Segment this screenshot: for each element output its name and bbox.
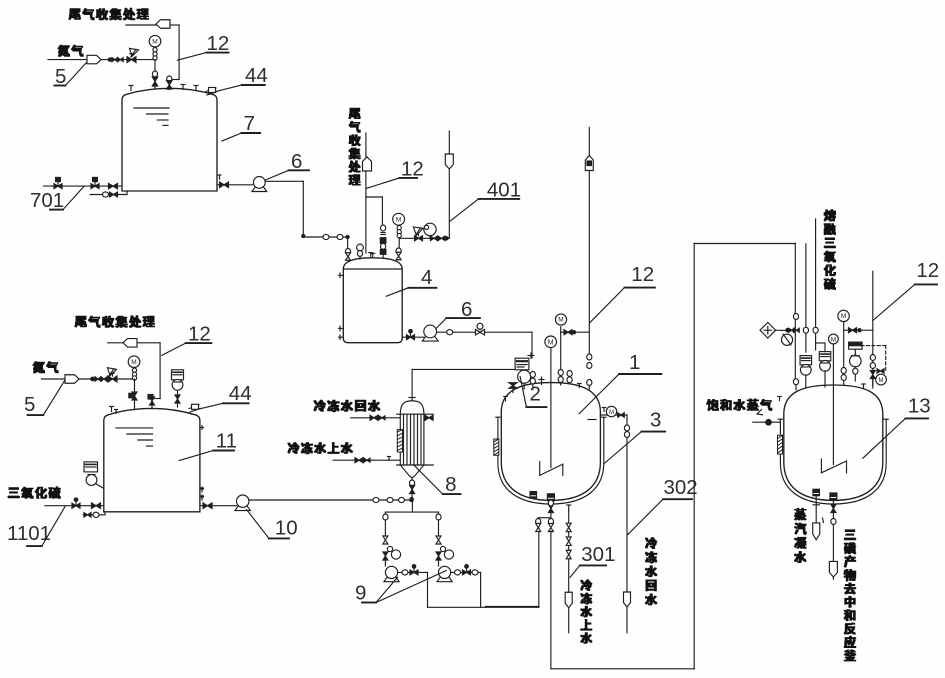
svg-text:12: 12 (916, 259, 939, 282)
liquid level mark tank7 (134, 108, 169, 125)
leader label 5 (tank11) (24, 381, 65, 416)
ball valve steam line (766, 419, 772, 425)
liquid level dash reactor1 (588, 419, 596, 421)
reactor 1 jacket (496, 417, 606, 504)
pipe: SO3 feed lines into vessel13 (806, 219, 816, 352)
side level transmitter tank11 (84, 462, 104, 489)
svg-text:M: M (879, 378, 884, 384)
pipe: tank7 drain (90, 191, 127, 195)
pipe: transfer line reactor1 to vessel13 (551, 244, 795, 669)
valves pump suction right (436, 514, 454, 566)
pipe: 1101 feed to tank11 (45, 505, 104, 507)
valves pumps discharge (402, 565, 478, 575)
svg-text:M: M (131, 359, 136, 366)
valves cw return (370, 415, 433, 420)
valves 1101 line (72, 498, 101, 509)
leader label 11 (179, 430, 237, 461)
bottom nozzles reactor1 (530, 492, 554, 501)
svg-text:44: 44 (229, 382, 252, 405)
label: chilled water supply vertical (301) (581, 580, 592, 643)
flow arrow vessel4 vent (points up) (363, 157, 372, 171)
pipe: vessel4 pump discharge to reactor 1 (437, 332, 532, 358)
pipe: product outlet vessel13 (832, 500, 834, 561)
flow arrow 302 (points down) (624, 592, 631, 607)
pressure gauge vessel13 (838, 310, 873, 385)
svg-text:M: M (396, 216, 401, 223)
svg-text:M: M (841, 313, 846, 320)
valves below gauge reactor1 (558, 330, 576, 385)
leader label 2 (520, 377, 546, 408)
nozzle ticks vessel4 (339, 254, 375, 340)
svg-text:M: M (609, 410, 614, 416)
label: chilled water supply text (HX) (288, 443, 352, 454)
svg-text:5: 5 (24, 393, 35, 416)
valves tank7 drain (103, 192, 118, 197)
leader label 401 (450, 179, 521, 222)
check valves nitrogen tank11 (91, 377, 107, 382)
valve stack on vessel4 vent branch (380, 225, 386, 257)
leader label 12 (tank7 vent) (177, 32, 229, 60)
pressure gauge reactor1 (555, 314, 566, 332)
flow arrow: nitrogen (points right) (87, 55, 101, 64)
pressure gauge tank7 (149, 35, 161, 60)
level switch box vessel13 (849, 342, 863, 381)
pipe: chilled water return to HX (351, 417, 434, 419)
svg-text:3: 3 (650, 409, 661, 432)
svg-text:302: 302 (664, 476, 698, 499)
valves cw supply (355, 458, 370, 463)
FIC transmitter circle (518, 370, 531, 389)
valve on tank7 vent nozzle (167, 76, 173, 90)
tank 11 body (104, 408, 200, 511)
nozzle ticks reactor1 dome (539, 371, 581, 388)
leader label 5 (tank7) (54, 62, 87, 88)
svg-text:M: M (831, 337, 836, 344)
steam trap vessel13 (813, 518, 824, 540)
label: steam condensate vertical text (795, 508, 807, 562)
valves on 301 line (566, 523, 571, 559)
pipe: HX bottom to junction (410, 478, 413, 501)
leader label 10 (247, 510, 298, 540)
svg-text:1: 1 (629, 351, 640, 374)
label: trisulfonated product to neutralization reactor vertical text (844, 530, 856, 661)
svg-text:9: 9 (355, 582, 366, 605)
relief valve with funnel tank7 (127, 48, 139, 62)
leader label 302 (628, 476, 698, 534)
label: chilled water return vertical (302) (646, 538, 657, 605)
label: sulfur trioxide text (8, 487, 60, 498)
leader label 6 (tank7 pump) (265, 150, 309, 180)
pressure gauge vessel4 (393, 213, 405, 259)
pipe: reactor1 side outlet to 302 drop (600, 408, 627, 593)
pipe: gauge tee to riser-12 reactor1 (561, 332, 590, 372)
nozzle 44 fitting tank7 (206, 88, 217, 96)
nozzle ticks tank11 dome (110, 407, 118, 414)
leader label 7 (tank) (222, 112, 260, 141)
leader label 1101 (7, 507, 65, 547)
pump 6 (vessel 4 pump) (422, 335, 438, 341)
gauge on side line reactor1 (606, 406, 624, 417)
pipe: 401 riser (448, 131, 450, 238)
valve stack on riser-12 bottom (587, 354, 592, 389)
agitator motor reactor1 (545, 336, 557, 348)
svg-text:M: M (548, 339, 554, 346)
leader label 12 (vessel13) (873, 259, 939, 321)
level transmitter on tank11 dome (172, 370, 184, 407)
nozzle ticks tank7 dome (129, 85, 198, 91)
heat exchanger 8 shell (397, 401, 434, 478)
leader label 44 (tank11) (200, 382, 252, 409)
valve reactor1 bottom (548, 505, 553, 513)
flow arrow: vent (points left) (156, 20, 170, 29)
flow arrow product (points down) (829, 561, 837, 577)
leader label 12 (tank11) (162, 323, 212, 356)
flow arrow 401 (points down) (445, 154, 453, 169)
leader label 3 (604, 409, 665, 464)
pipe: pumps suction manifold (385, 499, 438, 536)
pipe: vessel13 vent riser 12 (872, 271, 874, 388)
valves on bottom branches (536, 519, 554, 532)
svg-text:12: 12 (207, 32, 230, 55)
valve: nitrogen drop to tank7 dome (152, 60, 158, 89)
valves on line to vessel 4 (323, 234, 343, 239)
svg-text:M: M (558, 317, 563, 324)
hatch nameplate HX8 (397, 430, 402, 452)
label: tail-gas collection text (tank 11) (75, 316, 154, 327)
svg-text:7: 7 (244, 112, 255, 135)
valves on SO3 feed lines (803, 327, 818, 333)
leader label 9 (two pumps) (355, 571, 446, 605)
pipe: 301 chilled water from reactor bottom (567, 505, 571, 592)
tubes of HX8 (404, 414, 422, 465)
valves on relief header (415, 233, 449, 241)
svg-text:M: M (152, 38, 157, 45)
hatch nameplate reactor1 jacket (494, 439, 499, 455)
valve tank11 vent nozzle (148, 395, 155, 410)
leader label 12 (reactor1) (590, 263, 655, 323)
reactor 1 body (501, 383, 600, 501)
pipe: vent line tank11 (108, 343, 160, 399)
pipe: steam condensate line (813, 496, 819, 523)
label: saturated steam text (707, 399, 772, 410)
pipe: steam inlet to vessel13 jacket (753, 410, 781, 423)
valves on vessel13 feed drop (778, 314, 800, 401)
nozzle 44 fitting tank11 (189, 404, 200, 412)
label: molten sulfur trioxide vertical text (824, 210, 835, 290)
leader label 6 (vessel4 pump) (436, 298, 480, 329)
feed transmitters on vessel13 dome (800, 343, 831, 388)
svg-text:12: 12 (631, 263, 654, 286)
pipe: pump10 discharge header (249, 499, 412, 501)
rupture disc diamond vessel13 (760, 322, 795, 345)
label: nitrogen text (tank 7) (58, 45, 83, 56)
svg-text:44: 44 (245, 64, 268, 87)
valves on discharge line (447, 323, 485, 335)
relief funnel tank11 (108, 368, 118, 382)
pipe: 701 feed line (44, 185, 123, 187)
leader label 1 (579, 351, 661, 414)
pipe: vessel4 relief header to 401 (399, 237, 449, 239)
label: tail-gas collection text (tank 7) (69, 8, 148, 19)
agitator reactor 1 (540, 348, 563, 476)
flow arrow reactor1 vent (points up) (585, 156, 593, 171)
flow arrow tank11 vent (points left) (123, 339, 137, 348)
valve: nitrogen drop to tank11 dome (129, 379, 137, 410)
label: tail-gas collection vertical text (vessel 4) (349, 108, 360, 185)
pipe: chilled water supply to HX (333, 457, 400, 461)
svg-text:4: 4 (421, 266, 432, 289)
valves pump suction left (383, 514, 401, 566)
tank 7 body (122, 88, 217, 191)
pipe: vent riser tank7 (169, 25, 179, 80)
bottom nozzles vessel13 (813, 489, 837, 500)
pipe: vent line tank7 to treatment (126, 24, 156, 26)
valves on vessel13 riser (862, 355, 876, 389)
pipe: nitrogen inlet tank7 (48, 59, 155, 61)
pipe: HX top to reactor feed line (409, 369, 515, 400)
pipe: reactor1 bottom outlet tee (538, 500, 551, 527)
svg-text:12: 12 (188, 323, 211, 346)
valve vessel4 outlet (407, 335, 415, 340)
agitator vessel13 (821, 344, 846, 473)
vessel 13 jacket (778, 419, 888, 504)
valve tank7 outlet (220, 182, 229, 188)
relief funnel on header (413, 227, 423, 236)
label: chilled water return text (HX) (314, 400, 380, 411)
leader label 44 (tank7) (217, 64, 268, 91)
valves tank11 drain (84, 512, 99, 517)
hatch nameplate vessel13 jacket (778, 435, 783, 454)
check valves nitrogen line tank7 (108, 58, 123, 62)
valves on 701 line (54, 177, 118, 188)
label: nitrogen text (tank11) (33, 362, 58, 373)
pump 9 right (437, 576, 452, 582)
flow arrow 301 (points down) (565, 592, 572, 608)
pipe: tank7 outlet to pump 6 (217, 175, 253, 185)
svg-text:11: 11 (216, 430, 237, 453)
valve tank11 outlet (203, 503, 212, 509)
flow arrow nitrogen tank11 (points right) (65, 375, 79, 384)
valves on pump10 discharge (373, 497, 413, 502)
leader label 13 (863, 395, 931, 459)
valve stack right of FIC (530, 372, 535, 390)
nozzle ticks tank11 right side (200, 426, 204, 500)
valves on product outlet (831, 505, 836, 525)
valves on vessel4 dome left (345, 244, 372, 260)
pipe: vessel4 outlet to pump (402, 336, 423, 338)
pipe: vessel4 vent riser (366, 133, 383, 253)
svg-text:10: 10 (275, 517, 298, 540)
dashed signal line vessel13 (861, 346, 886, 371)
vessel 4 body (343, 258, 402, 343)
svg-text:2: 2 (530, 383, 541, 406)
valve below HX (410, 480, 415, 494)
pressure gauge tank11 (128, 356, 140, 380)
pipe: tank11 drain (83, 512, 105, 515)
pipe: pumps discharge loop to reactor bottom (398, 527, 539, 607)
blower symbol on header (424, 223, 436, 238)
pipe: reactor1 vent riser 12 (588, 127, 590, 356)
svg-text:701: 701 (30, 189, 64, 212)
valve on 302 drop (624, 425, 629, 438)
pipe: pump6 discharge to vessel 4 (265, 181, 349, 248)
leader label 301 (570, 543, 615, 577)
svg-text:8: 8 (445, 473, 456, 496)
liquid level mark tank11 (116, 428, 153, 446)
flow meter FIC on reactor1 feed (515, 353, 534, 370)
agitator motor vessel13 (829, 334, 839, 344)
pump 6 (tank7 transfer pump) (252, 186, 267, 192)
pipe: tank11 outlet to pump 10 (200, 488, 237, 506)
leader label 8 (413, 465, 460, 497)
svg-text:13: 13 (908, 395, 931, 418)
pump 9 left (384, 576, 399, 582)
valve left of FIC on dome (504, 383, 517, 401)
vessel 13 body (784, 385, 883, 500)
solenoid valve on signal line (876, 369, 887, 385)
leader label 701 (30, 186, 84, 212)
pipe: pumps discharge riser to reactor inlet (486, 605, 539, 607)
leader label 12 (vessel4) (366, 158, 424, 189)
svg-text:301: 301 (581, 543, 615, 566)
pump 10 (235, 505, 250, 511)
pipe: nitrogen inlet tank11 (42, 378, 135, 380)
leader label 4 (386, 266, 436, 296)
